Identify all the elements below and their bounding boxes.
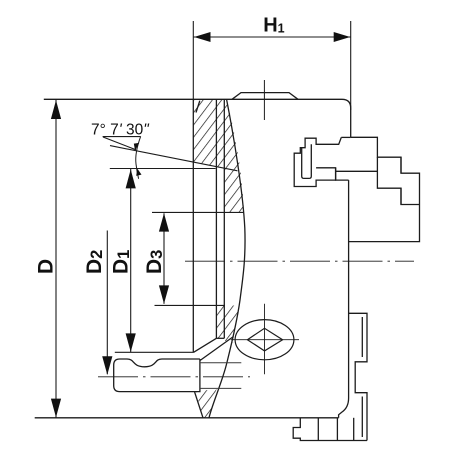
svg-text:D3: D3 xyxy=(143,250,166,274)
svg-text:7° 7' 30": 7° 7' 30" xyxy=(91,122,150,139)
svg-text:D2: D2 xyxy=(83,250,106,274)
svg-text:H1: H1 xyxy=(263,15,284,37)
svg-text:D1: D1 xyxy=(110,250,133,274)
svg-text:D: D xyxy=(34,259,57,274)
